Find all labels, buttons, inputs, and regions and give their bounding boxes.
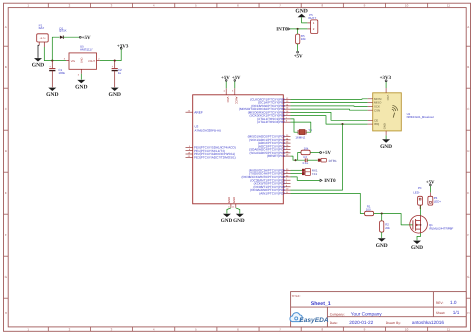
svg-text:GND: GND xyxy=(233,218,245,224)
net port DTR xyxy=(318,159,321,162)
svg-text:GND: GND xyxy=(75,85,87,91)
svg-text:Company:: Company: xyxy=(330,313,345,317)
wire regulator GND pin xyxy=(80,74,82,80)
svg-text:NRF24L01_Breakout: NRF24L01_Breakout xyxy=(407,115,434,119)
svg-text:GND: GND xyxy=(232,197,236,203)
wire diode to +5V xyxy=(63,36,79,38)
NRF left pins xyxy=(368,98,373,100)
ground (R2) xyxy=(378,238,386,241)
svg-text:F: F xyxy=(5,233,7,237)
svg-text:INT0: INT0 xyxy=(276,27,288,33)
capacitor C1 100u xyxy=(51,61,53,68)
+5V flag (AVCC) xyxy=(234,81,236,89)
wire gnd to button pin1 xyxy=(302,17,308,23)
svg-text:IRLML6244TRPBF: IRLML6244TRPBF xyxy=(429,226,454,230)
net port TX1 (PD1) xyxy=(291,173,303,175)
svg-text:GND: GND xyxy=(376,243,388,249)
ground (C1) xyxy=(48,88,56,91)
resistor R6 10k pullup xyxy=(296,153,302,161)
svg-text:Sheet:: Sheet: xyxy=(436,311,446,315)
node IRQ junction xyxy=(341,123,343,125)
MCU U2 ATMEGA328PB-AU xyxy=(193,95,284,204)
wire MCU gnd right xyxy=(236,208,240,214)
svg-text:Date:: Date: xyxy=(330,321,338,325)
svg-text:(XTAL2/TOSC2)PB7: (XTAL2/TOSC2)PB7 xyxy=(257,120,285,124)
MCU right-side pins PC0-PC6 xyxy=(283,136,290,138)
wire IRQ to PD6 xyxy=(291,124,343,190)
svg-text:+5V: +5V xyxy=(322,150,331,156)
wire PD7 to R1 xyxy=(291,193,365,213)
svg-text:F: F xyxy=(467,233,469,237)
svg-text:E: E xyxy=(467,191,469,195)
svg-text:AVCC: AVCC xyxy=(235,97,239,105)
svg-text:AMS1117: AMS1117 xyxy=(80,47,93,51)
wire NRF gnd xyxy=(385,135,387,139)
ground (C2) xyxy=(111,88,119,91)
svg-text:LED+: LED+ xyxy=(434,200,442,204)
wire PB7 to crystal xyxy=(291,122,311,132)
capacitor C2 1u xyxy=(114,61,116,68)
node VOUT junction xyxy=(114,60,116,62)
node VIN junction xyxy=(51,60,53,62)
svg-text:20k: 20k xyxy=(385,226,390,230)
svg-text:DTR1: DTR1 xyxy=(329,159,337,163)
svg-text:10k: 10k xyxy=(304,146,309,150)
wire P3 to +5V xyxy=(429,186,431,193)
MCU pin AREF xyxy=(186,111,193,113)
svg-text:10k: 10k xyxy=(301,37,306,41)
MOSFET Q1 IRLML6244TRPBF xyxy=(410,216,428,234)
+5V flag (VCC) xyxy=(225,81,227,89)
svg-text:CSN: CSN xyxy=(374,108,380,112)
svg-text:ATMEGA328PB-AU: ATMEGA328PB-AU xyxy=(195,128,222,132)
wire MCU gnd left xyxy=(227,208,231,214)
wire source to ground xyxy=(420,229,422,233)
svg-text:B: B xyxy=(467,65,469,69)
ground (MCU right) xyxy=(236,214,244,217)
wire INT0 to button pin2 xyxy=(290,28,307,30)
+3V3 flag (NRF) xyxy=(385,82,387,88)
MCU ground pins xyxy=(230,204,232,208)
NRF GND pin xyxy=(385,131,387,136)
svg-text:Y1: Y1 xyxy=(308,128,312,132)
svg-text:LED-: LED- xyxy=(413,190,420,194)
MCU right-side pins PD0-PD7 xyxy=(283,169,290,171)
wire PB6 to crystal xyxy=(291,119,299,132)
net flag INT0 (PD2) xyxy=(291,177,320,181)
svg-text:INT0: INT0 xyxy=(324,178,336,184)
svg-text:GND: GND xyxy=(221,218,233,224)
+5V flag (pullup R5) xyxy=(297,51,299,53)
svg-text:GND: GND xyxy=(81,57,84,63)
svg-text:PE3(PTCXY/ADC7/T3/MOSI1): PE3(PTCXY/ADC7/T3/MOSI1) xyxy=(194,155,236,159)
svg-text:+5V: +5V xyxy=(232,75,241,81)
NRF VCC pin xyxy=(385,88,387,93)
svg-text:GND: GND xyxy=(32,63,44,69)
+3V3 flag xyxy=(120,47,122,49)
svg-text:+5V: +5V xyxy=(426,180,435,186)
svg-text:GND: GND xyxy=(46,92,58,98)
svg-text:QS1K: QS1K xyxy=(59,29,67,33)
svg-text:GND: GND xyxy=(411,245,423,251)
node reset junction xyxy=(294,159,296,161)
svg-text:1.0: 1.0 xyxy=(450,300,457,305)
svg-text:BAT: BAT xyxy=(39,26,45,30)
+5V flag (diode output) xyxy=(79,36,81,38)
svg-text:+5V: +5V xyxy=(294,53,303,59)
node gate junction xyxy=(381,212,383,214)
NRF antenna symbol xyxy=(392,109,394,111)
svg-text:Your Company: Your Company xyxy=(351,312,382,317)
svg-text:IRQ: IRQ xyxy=(374,122,380,126)
wire battery plus to rail xyxy=(44,47,66,61)
svg-text:Drawn By:: Drawn By: xyxy=(386,321,401,325)
resistor R2 20k xyxy=(381,214,383,221)
wire R1 to gate xyxy=(374,214,413,225)
svg-text:GND: GND xyxy=(227,197,231,203)
svg-text:10: 10 xyxy=(405,4,409,8)
+5V flag (LED supply) xyxy=(430,184,432,186)
wire to diode xyxy=(52,37,59,60)
connector P3 LED+ xyxy=(428,196,433,205)
EasyEDA logo xyxy=(290,313,302,322)
ground (NRF) xyxy=(382,139,390,142)
wire drain up xyxy=(420,216,422,221)
svg-text:+5V: +5V xyxy=(82,35,91,41)
svg-text:GND: GND xyxy=(108,92,120,98)
wire VOUT rail xyxy=(100,49,121,60)
svg-text:TX1: TX1 xyxy=(312,172,318,176)
wire battery to GND xyxy=(38,45,39,58)
svg-text:+3V3: +3V3 xyxy=(117,43,129,49)
svg-text:Sheet_1: Sheet_1 xyxy=(311,301,331,307)
ground (U5) xyxy=(77,80,85,83)
MCU right-side pins PB0-PB7 xyxy=(283,98,290,100)
svg-text:antoshka12016: antoshka12016 xyxy=(412,320,444,325)
wire RESET xyxy=(291,156,306,160)
svg-text:1u: 1u xyxy=(118,71,122,75)
svg-text:H: H xyxy=(467,311,469,315)
net port RX1 (PD0) xyxy=(291,169,303,171)
title block xyxy=(291,292,467,327)
wire PB2 to SCK xyxy=(291,105,368,108)
MCU left pins PE0-PE3 xyxy=(186,146,193,148)
svg-text:A: A xyxy=(467,25,469,29)
wire PB1 to MISO xyxy=(291,102,368,104)
svg-text:TITLE:: TITLE: xyxy=(292,294,301,298)
node button junction xyxy=(297,28,299,30)
svg-text:+5V: +5V xyxy=(221,75,230,81)
svg-text:GND: GND xyxy=(380,144,392,150)
svg-text:E: E xyxy=(5,191,7,195)
svg-text:100u: 100u xyxy=(58,71,65,75)
svg-text:1/1: 1/1 xyxy=(453,310,460,315)
svg-text:VCC: VCC xyxy=(386,95,389,101)
svg-text:+3V3: +3V3 xyxy=(380,75,392,81)
svg-text:A: A xyxy=(5,25,7,29)
+5V flag (reset pullup) xyxy=(320,152,322,154)
ground (battery) xyxy=(34,58,42,61)
svg-text:EasyEDA: EasyEDA xyxy=(299,317,329,324)
wire PB0 to MOSI xyxy=(291,98,368,101)
svg-text:16MHZ: 16MHZ xyxy=(295,136,305,140)
svg-text:H: H xyxy=(5,311,7,315)
svg-text:11: 11 xyxy=(447,4,450,8)
svg-text:(RESET)PC6: (RESET)PC6 xyxy=(267,154,285,158)
wire PB3 to CSN xyxy=(291,109,368,110)
MCU power pins VCC AVCC xyxy=(225,88,227,95)
ground (Q1 source) xyxy=(413,241,421,244)
svg-text:VIN: VIN xyxy=(71,60,75,63)
svg-text:REV:: REV: xyxy=(436,301,444,305)
svg-text:+3.7v: +3.7v xyxy=(40,37,47,40)
svg-text:VOUT: VOUT xyxy=(88,60,95,63)
wire PB4 to CE xyxy=(291,112,368,120)
svg-text:GND: GND xyxy=(383,123,386,129)
NRF24L01 breakout U1 xyxy=(373,93,402,131)
svg-text:B: B xyxy=(5,65,7,69)
wire PB5 to IRQ xyxy=(291,116,368,124)
ground (MCU left) xyxy=(223,214,231,217)
svg-text:VCC: VCC xyxy=(226,97,230,103)
resistor R5 10k xyxy=(297,29,299,34)
svg-text:10: 10 xyxy=(405,328,409,332)
svg-text:2020-01-22: 2020-01-22 xyxy=(349,320,373,325)
svg-text:11: 11 xyxy=(447,328,450,332)
svg-text:(AIN1/PTCXY)PD7: (AIN1/PTCXY)PD7 xyxy=(259,191,285,195)
svg-text:AREF: AREF xyxy=(194,110,203,114)
